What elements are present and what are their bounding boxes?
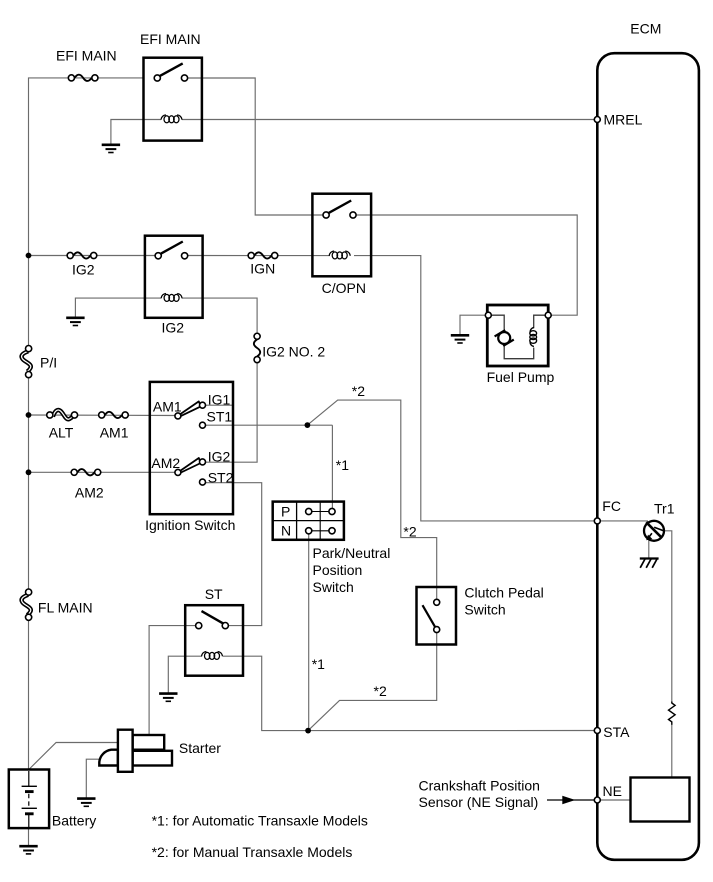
fuel pump assembly box (487, 305, 548, 366)
label EFI MAIN fuse (56, 48, 117, 64)
svg-text:Sensor (NE Signal): Sensor (NE Signal) (419, 794, 539, 810)
wire IG2 NO. 2 fuse to ignition switch IG2 terminal (205, 360, 257, 463)
label note *2 lower (374, 683, 387, 699)
label note *1 lower (312, 656, 325, 672)
svg-text:Starter: Starter (179, 740, 221, 756)
svg-text:N: N (281, 523, 291, 539)
label relay C/OPN (322, 280, 366, 296)
label Park/Neutral Position Switch (313, 545, 391, 595)
fusible link ALT (47, 410, 78, 419)
wire IG2 relay coil to IG2 NO. 2 fuse (182, 298, 257, 336)
label terminal ST2 (208, 469, 234, 485)
svg-text:IG2 NO. 2: IG2 NO. 2 (262, 344, 325, 360)
label contact P (281, 503, 290, 519)
svg-text:IG2: IG2 (162, 320, 185, 336)
svg-text:*2: *2 (403, 524, 416, 540)
svg-text:ALT: ALT (49, 425, 74, 441)
crankshaft position sensor signal arrow (547, 796, 596, 805)
wire EFI MAIN relay coil to ground stub (111, 120, 161, 145)
junction node on rail at IG2 line (26, 253, 32, 259)
wire battery rail (lower segment to battery) (28, 617, 30, 769)
label Ignition Switch (145, 517, 235, 533)
wire IG2 relay switch to IGN fuse to C/OPN relay coil (186, 255, 330, 257)
ground starter (77, 799, 95, 807)
starter motor assembly (99, 730, 172, 772)
switch Clutch Pedal SW3 (417, 587, 457, 645)
svg-text:*2: *2 (374, 683, 387, 699)
svg-text:Ignition Switch: Ignition Switch (145, 517, 235, 533)
wire ECM NE pin to NE block (600, 799, 631, 801)
label contact N (281, 523, 291, 539)
ECM U1 enclosure (597, 53, 699, 860)
wire ignition switch ST1 terminal to junction and P/N switch (205, 424, 332, 426)
wire ignition switch IG1 terminal line (205, 404, 233, 406)
svg-text:*1: *1 (336, 457, 349, 473)
fuel pump motor M (495, 330, 514, 346)
label pin NE (603, 783, 622, 799)
ground IG2 relay coil (66, 318, 84, 326)
label fuse AM2 (75, 485, 104, 501)
svg-text:Switch: Switch (313, 579, 354, 595)
relay ST (185, 605, 243, 676)
svg-text:Fuel Pump: Fuel Pump (487, 369, 555, 385)
svg-text:EFI MAIN: EFI MAIN (56, 48, 117, 64)
label pin MREL (604, 112, 643, 128)
fusible link FL MAIN (vertical) (22, 589, 32, 620)
pin MREL (594, 117, 600, 123)
fuse AM2 (71, 469, 101, 475)
label relay IG2 (162, 320, 185, 336)
label terminal AM2 (151, 455, 180, 471)
label fusible link ALT (49, 425, 74, 441)
fuse EFI MAIN (68, 75, 98, 81)
svg-text:ST1: ST1 (207, 408, 233, 424)
svg-text:C/OPN: C/OPN (322, 280, 366, 296)
chassis ground Tr1 emitter (640, 559, 659, 568)
label terminal AM1 (153, 399, 182, 415)
svg-text:AM2: AM2 (75, 485, 104, 501)
svg-text:ST: ST (205, 586, 223, 602)
svg-text:*1: for Automatic Transaxle Mo: *1: for Automatic Transaxle Models (152, 813, 368, 829)
wire Tr1 collector to resistor to NE block (664, 531, 672, 702)
svg-text:*2: for Manual Transaxle Model: *2: for Manual Transaxle Models (152, 844, 353, 860)
fuel pump terminal pins (485, 312, 551, 318)
wire resistor to NE block (671, 725, 673, 778)
label Starter (179, 740, 221, 756)
label transistor Tr1 (654, 500, 675, 516)
wire battery positive rail (upper segment) (29, 78, 144, 348)
wire fuel pump to ground stub (460, 315, 487, 335)
svg-text:AM2: AM2 (151, 455, 180, 471)
wire battery positive cable to starter (29, 743, 118, 770)
svg-text:STA: STA (603, 724, 630, 740)
svg-text:Position: Position (313, 562, 363, 578)
svg-text:IGN: IGN (250, 261, 275, 277)
svg-text:ECM: ECM (630, 21, 661, 37)
wire ST relay coil to ground stub (168, 656, 202, 693)
wire IG2 fuse feed line (29, 255, 157, 257)
wire EFI MAIN relay coil to ECM MREL pin (182, 119, 596, 121)
svg-text:MREL: MREL (604, 112, 643, 128)
svg-text:IG2: IG2 (72, 262, 95, 278)
label fusible link FL MAIN (38, 599, 93, 615)
svg-text:Park/Neutral: Park/Neutral (313, 545, 391, 561)
svg-text:P/I: P/I (40, 355, 57, 371)
pin STA (594, 728, 600, 734)
label footnote *1 (152, 813, 368, 829)
wire EFI MAIN relay switch output to C/OPN relay switch (186, 78, 325, 215)
label Crankshaft Position Sensor (419, 777, 540, 810)
svg-text:Switch: Switch (464, 602, 505, 618)
fuse IG2 NO. 2 (vertical) (254, 333, 260, 362)
fuse IGN (248, 252, 278, 258)
label terminal IG2 (208, 448, 231, 464)
ground EFI MAIN relay coil (102, 145, 120, 153)
ground battery negative (19, 846, 37, 854)
label fuse IG2 NO. 2 (262, 344, 325, 360)
label note *2 clutch feed (403, 524, 416, 540)
wire ignition switch ST2 terminal to ST relay switch (205, 483, 262, 626)
label fusible link P/I (40, 355, 57, 371)
label fuse IGN (250, 261, 275, 277)
svg-text:IG1: IG1 (208, 392, 231, 408)
junction node on rail at AM2 line (26, 469, 32, 475)
svg-text:*2: *2 (352, 383, 365, 399)
svg-text:FL MAIN: FL MAIN (38, 599, 93, 615)
wire ST relay switch output to starter solenoid (149, 626, 196, 736)
junction node on rail at AM1 line (26, 412, 32, 418)
svg-text:Crankshaft Position: Crankshaft Position (419, 777, 540, 793)
wire ST1 junction down to Park/Neutral switch P contact (331, 425, 333, 509)
label fuse AM1 (100, 425, 129, 441)
NE signal block in ECM (631, 778, 690, 822)
resistor R1 (pull-up in ECM) (669, 702, 676, 725)
label EFI MAIN relay (140, 31, 201, 47)
pin NE (594, 797, 600, 803)
label pin FC (602, 498, 621, 514)
svg-text:P: P (281, 503, 290, 519)
ground fuel pump (451, 335, 469, 343)
fuse IG2 (67, 252, 97, 258)
wire Tr1 emitter to chassis ground (648, 541, 650, 559)
relay C/OPN (312, 194, 371, 277)
wire AM2 feed line with AM2 fuse (29, 471, 177, 473)
svg-text:AM1: AM1 (153, 399, 182, 415)
label relay ST (205, 586, 223, 602)
svg-text:ST2: ST2 (208, 469, 234, 485)
ignition switch SW1 (150, 382, 233, 514)
battery BT1 (9, 770, 49, 829)
wire clutch pedal switch to STA junction (*2 branch) (308, 632, 437, 730)
label Battery (52, 812, 96, 828)
fuel pump coil (check valve coil) (530, 328, 537, 347)
relay EFI MAIN (144, 58, 202, 141)
svg-text:IG2: IG2 (208, 448, 231, 464)
transistor Q1 Tr1 (644, 521, 664, 541)
svg-text:EFI MAIN: EFI MAIN (140, 31, 201, 47)
wire C/OPN relay switch output to fuel pump (355, 215, 577, 315)
label terminal ST1 (207, 408, 233, 424)
label ECM (630, 21, 661, 37)
svg-text:AM1: AM1 (100, 425, 129, 441)
pin FC (594, 518, 600, 524)
label fuse IG2 (72, 262, 95, 278)
ground ST relay coil (159, 694, 177, 702)
svg-text:Tr1: Tr1 (654, 500, 675, 516)
fuse AM1 (99, 412, 129, 418)
wire starter body to ground (86, 759, 101, 798)
wire *2 branch diagonal from ST1 junction (307, 400, 436, 599)
label note *2 upper (352, 383, 365, 399)
wire C/OPN relay coil to ECM FC pin (354, 256, 596, 521)
label Fuel Pump (487, 369, 555, 385)
svg-text:NE: NE (603, 783, 622, 799)
svg-text:Battery: Battery (52, 812, 96, 828)
junction node ST1 branch (305, 422, 311, 428)
wire battery rail (middle segment) (28, 375, 30, 592)
wire ST relay coil to STA line and ECM STA pin (223, 656, 596, 730)
label footnote *2 (152, 844, 353, 860)
svg-text:*1: *1 (312, 656, 325, 672)
svg-text:Clutch Pedal: Clutch Pedal (464, 585, 543, 601)
junction node STA line (305, 728, 311, 734)
wire Park/Neutral switch N contact down to STA junction (308, 533, 310, 731)
label pin STA (603, 724, 630, 740)
relay IG2 (145, 236, 203, 318)
switch Park/Neutral Position SW2 (273, 502, 344, 540)
wire IG2 relay coil to ground stub (75, 298, 161, 317)
label Clutch Pedal Switch (464, 585, 543, 618)
svg-text:FC: FC (602, 498, 621, 514)
label terminal IG1 (208, 392, 231, 408)
wire AM1 feed line with ALT and AM1 fuses (29, 414, 177, 417)
label note *1 upper (336, 457, 349, 473)
fusible link P/I (vertical) (22, 346, 32, 378)
wire ECM FC pin to transistor Tr1 base (600, 520, 649, 522)
wire battery negative to ground (28, 828, 30, 846)
